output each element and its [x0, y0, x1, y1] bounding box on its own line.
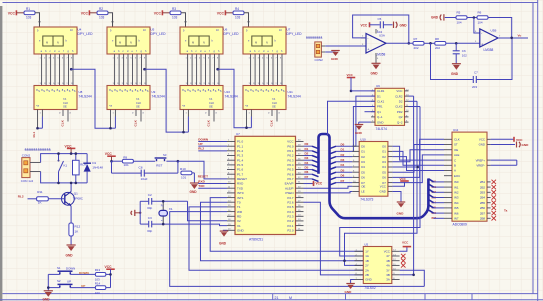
power net VCC (ADC) — [491, 138, 514, 140]
svg-text:CLK1: CLK1 — [377, 100, 385, 104]
relay contact switch — [58, 154, 60, 161]
svg-text:103: 103 — [95, 291, 100, 295]
svg-text:VCC: VCC — [516, 138, 523, 142]
svg-text:103: 103 — [26, 16, 32, 20]
svg-text:OE: OE — [63, 105, 67, 109]
wire CLK1 from bus top — [328, 101, 376, 135]
svg-text:103: 103 — [235, 16, 241, 20]
svg-text:CON2: CON2 — [315, 58, 324, 62]
svg-text:D7: D7 — [305, 175, 309, 179]
svg-text:4A: 4A — [386, 264, 390, 268]
svg-text:UP: UP — [81, 284, 85, 288]
svg-text:D1: D1 — [305, 147, 309, 151]
svg-text:O2: O2 — [382, 155, 386, 159]
svg-text:T1: T1 — [237, 205, 241, 209]
buffer 74LS244 U11 (block 4) — [243, 86, 286, 110]
svg-text:P0.0: P0.0 — [287, 144, 294, 148]
svg-text:DPY_LED: DPY_LED — [78, 32, 94, 36]
svg-text:DOWN: DOWN — [66, 266, 75, 270]
svg-text:Q1: Q1 — [377, 110, 381, 114]
svg-text:O4: O4 — [382, 165, 386, 169]
svg-text:CLK: CLK — [454, 138, 460, 142]
svg-text:C2: C2 — [148, 193, 152, 197]
svg-text:C8: C8 — [139, 165, 143, 169]
svg-text:P2.0: P2.0 — [287, 228, 294, 232]
svg-text:VCC: VCC — [105, 265, 113, 269]
wire ALE to 74LS373 OE — [304, 186, 353, 188]
svg-text:2B7: 2B7 — [480, 211, 486, 215]
wires latch outputs to ADC address — [392, 146, 444, 160]
svg-text:N: N — [57, 41, 59, 45]
no-ERC marks 74LS02 — [401, 254, 406, 268]
enable wire join (block 2) — [114, 117, 116, 129]
svg-text:CLK: CLK — [209, 101, 214, 105]
svg-text:GND: GND — [355, 131, 363, 135]
wire relay loop — [41, 154, 88, 163]
svg-text:2B6: 2B6 — [480, 206, 486, 210]
svg-text:GND: GND — [43, 297, 51, 301]
resistor R1 10k (segment supply, block 1) — [24, 11, 35, 15]
svg-text:VREF+: VREF+ — [476, 158, 486, 162]
svg-text:OE: OE — [361, 185, 365, 189]
svg-text:21: 21 — [275, 296, 279, 300]
svg-text:P1.3: P1.3 — [237, 154, 244, 158]
svg-text:D4: D4 — [361, 165, 365, 169]
power net VCC (latch) — [392, 182, 404, 186]
svg-text:U11: U11 — [453, 128, 459, 132]
svg-text:UP: UP — [198, 142, 202, 146]
svg-text:GND: GND — [397, 212, 405, 216]
svg-text:EA/VP: EA/VP — [285, 182, 294, 186]
svg-text:3A: 3A — [386, 278, 390, 282]
ground (MCU pin20) — [223, 229, 227, 231]
svg-text:IN4: IN4 — [454, 201, 459, 205]
svg-text:GND: GND — [345, 290, 353, 294]
svg-text:P2.6: P2.6 — [287, 200, 294, 204]
svg-text:2A: 2A — [365, 268, 369, 272]
svg-text:R14: R14 — [95, 281, 101, 285]
svg-text:aaaaaaaa: aaaaaaaa — [306, 36, 323, 40]
svg-text:TXD: TXD — [198, 184, 205, 188]
svg-text:VCC: VCC — [361, 23, 368, 27]
svg-text:P1.1: P1.1 — [237, 144, 244, 148]
svg-text:P0.5: P0.5 — [287, 168, 294, 172]
svg-text:U5: U5 — [151, 27, 155, 31]
svg-text:R10: R10 — [180, 167, 186, 171]
svg-text:GND: GND — [237, 228, 245, 232]
svg-text:GND: GND — [522, 143, 530, 147]
svg-text:74LS244: 74LS244 — [288, 94, 301, 98]
svg-text:R4: R4 — [235, 7, 239, 11]
svg-text:D4: D4 — [305, 161, 309, 165]
svg-text:DPY_LED: DPY_LED — [287, 32, 303, 36]
resistor R6 10k (feedback) — [467, 17, 477, 19]
svg-text:D2: D2 — [361, 155, 365, 159]
svg-text:Q~1: Q~1 — [377, 115, 383, 119]
svg-text:D0: D0 — [341, 142, 345, 146]
svg-text:LE: LE — [361, 190, 365, 194]
svg-text:CLK: CLK — [207, 119, 211, 126]
wire PR1 down to latch — [352, 107, 375, 152]
svg-text:104: 104 — [457, 20, 462, 24]
crystal X1 — [162, 201, 164, 210]
svg-text:PSEN: PSEN — [285, 191, 293, 195]
svg-text:OE: OE — [272, 105, 276, 109]
svg-text:RXD: RXD — [198, 179, 205, 183]
svg-text:P2.7: P2.7 — [287, 196, 294, 200]
wire resistor to DPY4 — [244, 13, 249, 22]
U10 bottom pins (enable + clock) — [183, 110, 185, 133]
svg-text:C7: C7 — [474, 71, 478, 75]
svg-text:B: B — [454, 164, 456, 168]
resistor R10 (reset pulldown) — [177, 161, 179, 173]
svg-text:UP: UP — [67, 279, 71, 283]
svg-text:X1: X1 — [237, 224, 241, 228]
svg-text:1B: 1B — [365, 259, 369, 263]
svg-text:R8: R8 — [435, 37, 439, 41]
svg-text:CLK: CLK — [136, 101, 141, 105]
svg-text:K1: K1 — [64, 164, 68, 168]
svg-text:VCC: VCC — [400, 177, 407, 181]
svg-text:M: M — [192, 41, 194, 45]
svg-text:P2.3: P2.3 — [287, 214, 294, 218]
svg-text:aaaaaaaaaaaa: aaaaaaaaaaaa — [25, 147, 51, 151]
svg-text:D3: D3 — [341, 158, 345, 162]
wire reset node to MCU RESET pin — [178, 161, 227, 179]
svg-text:CLK: CLK — [272, 101, 277, 105]
svg-text:74LS74: 74LS74 — [376, 127, 388, 131]
svg-text:VCC: VCC — [217, 12, 225, 16]
power net VCC (74LS02) — [400, 247, 407, 251]
svg-text:74LS244: 74LS244 — [225, 94, 238, 98]
wire CLK2 chain to NOR 1A — [345, 101, 418, 265]
svg-text:P0.2: P0.2 — [287, 154, 294, 158]
MCU pins — [227, 142, 304, 231]
wire R8 to U3B — [446, 42, 480, 44]
svg-text:T0: T0 — [237, 200, 241, 204]
svg-text:X2: X2 — [237, 219, 241, 223]
svg-text:VCC: VCC — [402, 240, 409, 244]
svg-text:2B8: 2B8 — [480, 217, 486, 221]
svg-text:GND: GND — [66, 253, 74, 257]
svg-text:D1: D1 — [92, 161, 96, 165]
buffer 74LS244 U9 (block 2) — [107, 86, 150, 110]
svg-text:PR1: PR1 — [377, 105, 383, 109]
svg-text:R1: R1 — [26, 7, 30, 11]
DPY2 bottom pins + wires to buffer — [115, 54, 146, 86]
U3B output — [498, 37, 528, 39]
svg-text:O1: O1 — [382, 150, 386, 154]
svg-text:Q1: Q1 — [74, 192, 78, 196]
svg-text:LM358: LM358 — [376, 53, 386, 57]
wire CON3 pin1 to op-amp — [325, 45, 366, 47]
svg-text:74LS373: 74LS373 — [360, 197, 373, 201]
op-amp U3A LM358 — [366, 34, 386, 54]
svg-text:A: A — [454, 169, 456, 173]
svg-text:N: N — [266, 41, 268, 45]
svg-text:OE: OE — [454, 148, 458, 152]
svg-text:WR: WR — [237, 210, 243, 214]
DPY3 bottom pins + wires to buffer — [188, 54, 219, 86]
svg-text:TIP08C: TIP08C — [73, 197, 84, 201]
svg-text:RESET: RESET — [198, 175, 208, 179]
svg-text:D5: D5 — [305, 166, 309, 170]
svg-text:D4: D4 — [341, 163, 345, 167]
svg-text:103: 103 — [99, 16, 105, 20]
svg-text:M: M — [289, 296, 292, 300]
svg-text:104: 104 — [478, 20, 483, 24]
svg-text:IN1: IN1 — [454, 185, 459, 189]
svg-text:DPY_LED: DPY_LED — [151, 32, 167, 36]
wire Q1 stub — [365, 111, 376, 113]
wire junction to U3B inverting input — [474, 18, 480, 34]
U8 bottom pins (enable + clock) — [37, 110, 39, 129]
svg-text:P0.3: P0.3 — [287, 158, 294, 162]
svg-text:D5: D5 — [361, 170, 365, 174]
wire chain block 1 to block 2 — [70, 68, 73, 71]
svg-text:RXD: RXD — [237, 182, 244, 186]
svg-text:Q~2: Q~2 — [397, 120, 403, 124]
svg-text:74LS244: 74LS244 — [152, 94, 165, 98]
svg-text:O0: O0 — [382, 144, 386, 148]
power net VCC (EA pin) — [304, 183, 314, 185]
svg-text:P0.6: P0.6 — [287, 172, 294, 176]
svg-text:DPY_LED: DPY_LED — [224, 32, 240, 36]
svg-text:P0.7: P0.7 — [287, 177, 294, 181]
svg-text:GND: GND — [431, 16, 439, 20]
svg-text:M: M — [255, 41, 257, 45]
DPY1 bottom pins + wires to buffer — [42, 54, 73, 86]
svg-text:VCC: VCC — [384, 250, 390, 254]
svg-text:U9: U9 — [376, 84, 380, 88]
svg-text:R3: R3 — [172, 7, 176, 11]
svg-text:D6: D6 — [341, 174, 345, 178]
resistor R9 101 — [112, 160, 123, 162]
svg-text:P1.7: P1.7 — [237, 172, 244, 176]
window edge strip — [0, 6, 2, 301]
ground (reset R10) — [193, 173, 195, 183]
svg-text:D6: D6 — [361, 176, 365, 180]
svg-text:D1: D1 — [341, 148, 345, 152]
svg-text:CLK: CLK — [61, 119, 65, 126]
svg-text:1Y: 1Y — [365, 250, 369, 254]
ground (U3A) — [372, 63, 381, 69]
svg-text:INT1: INT1 — [237, 196, 244, 200]
resistor R14 — [95, 286, 105, 290]
diode D1 1N4148 — [86, 154, 88, 164]
svg-text:R11: R11 — [37, 190, 43, 194]
svg-text:M: M — [119, 41, 121, 45]
U11 bottom pins (enable + clock) — [246, 110, 248, 128]
svg-text:Ta: Ta — [504, 209, 508, 213]
svg-text:VCC: VCC — [81, 12, 89, 16]
svg-text:VCC: VCC — [8, 12, 16, 16]
svg-text:P2.4: P2.4 — [287, 210, 294, 214]
7-seg display DPY1 (DPY_LED) — [34, 27, 77, 54]
svg-text:103: 103 — [172, 16, 178, 20]
resistor R2 10k (segment supply, block 2) — [97, 11, 108, 15]
resistor R13 — [95, 273, 105, 277]
svg-text:GND: GND — [219, 242, 227, 246]
svg-text:D2: D2 — [341, 153, 345, 157]
svg-text:PR2: PR2 — [397, 110, 403, 114]
wire chain block 2 to block 3 — [143, 68, 146, 71]
svg-text:GND: GND — [190, 190, 198, 194]
wire R6 to output node — [488, 18, 512, 38]
svg-text:U10: U10 — [360, 137, 366, 141]
svg-text:7A: 7A — [272, 97, 275, 101]
svg-text:P1.2: P1.2 — [237, 149, 244, 153]
svg-text:D2: D2 — [305, 152, 309, 156]
svg-text:X1: X1 — [169, 207, 173, 211]
capacitor C8 10uF (reset) — [111, 161, 113, 173]
svg-text:7A: 7A — [136, 97, 139, 101]
node: VCC/reset junction — [110, 160, 113, 163]
svg-text:GND: GND — [400, 23, 408, 27]
svg-text:RL1: RL1 — [32, 132, 36, 138]
svg-text:DOWN: DOWN — [198, 137, 209, 141]
ground (74LS74) — [359, 121, 371, 123]
svg-text:D7: D7 — [341, 179, 345, 183]
svg-text:7A: 7A — [209, 97, 212, 101]
svg-text:P0.4: P0.4 — [287, 163, 294, 167]
capacitor C2 30p — [140, 200, 148, 202]
svg-text:Q2: Q2 — [399, 115, 403, 119]
relay coil RL1 — [75, 154, 77, 161]
svg-text:30p: 30p — [147, 229, 152, 233]
svg-text:101: 101 — [181, 176, 186, 180]
svg-text:GND: GND — [371, 72, 379, 76]
svg-text:202: 202 — [414, 46, 419, 50]
svg-text:INT0: INT0 — [237, 191, 244, 195]
svg-text:GND: GND — [479, 143, 485, 147]
buffer 74LS244 U8 (block 1) — [34, 86, 77, 110]
svg-text:CON 1x2: CON 1x2 — [21, 179, 34, 183]
svg-text:U7: U7 — [287, 27, 291, 31]
svg-text:VCC: VCC — [380, 185, 386, 189]
wire button to node B — [166, 160, 178, 162]
svg-text:P0.1: P0.1 — [287, 149, 294, 153]
svg-text:7A: 7A — [63, 97, 66, 101]
svg-text:P2.5: P2.5 — [287, 205, 294, 209]
svg-text:EOC: EOC — [454, 174, 460, 178]
svg-text:ALE/P: ALE/P — [285, 186, 294, 190]
node: crystal taps — [162, 200, 165, 203]
svg-text:C3: C3 — [148, 216, 152, 220]
svg-text:R9: R9 — [123, 155, 127, 159]
ground (buttons) — [44, 291, 53, 297]
net label UP — [70, 287, 95, 289]
svg-text:2Y: 2Y — [365, 264, 369, 268]
svg-text:CLR1: CLR1 — [377, 89, 385, 93]
svg-text:Vo: Vo — [518, 34, 522, 38]
svg-text:R7: R7 — [414, 37, 418, 41]
wire crystal left rail — [139, 201, 141, 224]
svg-text:R2: R2 — [99, 7, 103, 11]
svg-text:RL2: RL2 — [198, 147, 204, 151]
svg-text:1A: 1A — [365, 254, 369, 258]
svg-text:GND: GND — [331, 57, 339, 61]
buffer 74LS244 U10 (block 3) — [180, 86, 223, 110]
wire NOR 3B right — [400, 274, 414, 276]
wire loop return to NOR right pin — [400, 270, 425, 286]
svg-text:VREF-: VREF- — [476, 164, 485, 168]
svg-text:2B4: 2B4 — [480, 196, 486, 200]
ground (emitter) — [70, 236, 72, 245]
svg-text:DOWN: DOWN — [79, 271, 90, 275]
wire resistor to DPY2 — [108, 13, 113, 22]
7-seg display DPY3 (DPY_LED) — [180, 27, 223, 54]
svg-text:CLK: CLK — [270, 119, 274, 126]
svg-text:3Y: 3Y — [386, 268, 390, 272]
svg-text:GND: GND — [377, 120, 383, 124]
wire MCU P3 loops to NOR gates — [210, 198, 363, 252]
no-ERC marks on ADC outputs — [492, 180, 497, 221]
svg-text:R12: R12 — [75, 225, 81, 229]
svg-text:U6: U6 — [224, 27, 228, 31]
ground (crystal rail) — [131, 210, 135, 216]
wire collector to relay loop — [70, 183, 72, 192]
svg-text:102: 102 — [462, 53, 467, 57]
svg-text:C5: C5 — [378, 17, 382, 21]
svg-text:2B: 2B — [365, 273, 369, 277]
svg-text:P1.5: P1.5 — [237, 163, 244, 167]
op-amp U3B LM358 — [480, 29, 498, 47]
svg-text:U7: U7 — [236, 132, 240, 136]
svg-text:P2.2: P2.2 — [287, 219, 294, 223]
resistor R5 10k — [445, 17, 456, 19]
transistor Q1 — [62, 192, 75, 205]
svg-text:D1: D1 — [377, 94, 381, 98]
svg-text:D0: D0 — [361, 144, 365, 148]
wire D2 chain to NOR 1B — [340, 107, 420, 257]
svg-text:30p: 30p — [147, 206, 152, 210]
svg-text:2B2: 2B2 — [480, 185, 486, 189]
svg-text:ADC0809: ADC0809 — [453, 222, 467, 226]
svg-text:R13: R13 — [95, 268, 101, 272]
resistor R3 10k (segment supply, block 3) — [170, 11, 181, 15]
svg-text:C: C — [454, 158, 456, 162]
net labels D0-D7 (P0 bus) — [304, 145, 313, 147]
net labels D0-D7 (latch inputs) + bus entries — [330, 146, 337, 149]
svg-text:4Y: 4Y — [386, 254, 390, 258]
svg-text:R6: R6 — [478, 11, 482, 15]
wire P2.6 down — [304, 202, 364, 275]
enable wire join (block 3) — [187, 117, 189, 133]
svg-text:P1.0: P1.0 — [237, 140, 244, 144]
DPY4 bottom pins + wires to buffer — [251, 54, 282, 86]
wire resistor to DPY1 — [35, 13, 40, 22]
svg-text:IN3: IN3 — [454, 196, 459, 200]
net label DOWN — [70, 273, 95, 275]
7-seg display DPY4 (DPY_LED) — [243, 27, 286, 54]
wire D1 down to latch — [352, 96, 375, 146]
svg-text:S2: S2 — [57, 279, 61, 283]
svg-text:VCC: VCC — [347, 73, 354, 77]
capacitor C3 30p — [140, 223, 148, 225]
data bus P0 (thick) — [319, 134, 429, 218]
svg-text:TXD: TXD — [237, 186, 244, 190]
svg-text:D0: D0 — [305, 142, 309, 146]
svg-text:IN5: IN5 — [454, 206, 459, 210]
svg-text:ALE: ALE — [454, 153, 460, 157]
svg-text:CON2: CON2 — [22, 153, 31, 157]
svg-text:P1.4: P1.4 — [237, 158, 244, 162]
svg-text:P2.1: P2.1 — [287, 224, 294, 228]
wires 74LS74 left rows — [351, 90, 375, 92]
svg-text:CLK: CLK — [134, 119, 138, 126]
svg-text:S3: S3 — [163, 153, 167, 157]
